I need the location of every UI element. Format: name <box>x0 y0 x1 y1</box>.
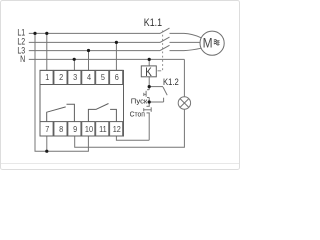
terminal row 7-12 <box>40 122 123 136</box>
wire terminal 9 to lamp bottom <box>75 109 185 147</box>
wire L3 contact to motor <box>170 48 202 50</box>
footer separator line <box>1 163 239 165</box>
contact K1.1 pole L3 <box>160 45 170 50</box>
svg-text:1: 1 <box>45 73 50 83</box>
svg-text:N: N <box>20 54 25 64</box>
wire coil K bottom to node A <box>148 77 150 87</box>
svg-text:10: 10 <box>85 124 94 134</box>
node bottom t7 <box>45 150 48 153</box>
wire L2 contact to motor <box>170 41 201 43</box>
terminal numbers 7-12 <box>45 124 121 134</box>
contact K1.2 latch <box>149 87 167 102</box>
wire terminal 12 to stop button <box>116 136 149 140</box>
wire terminal 7 drop <box>46 136 48 151</box>
relay U1 outline <box>40 70 124 136</box>
button S2 stop (Стоп) <box>144 102 152 140</box>
wire L3 to terminal 4 <box>88 51 90 71</box>
svg-text:M: M <box>203 35 213 51</box>
motor M1 <box>200 31 224 55</box>
wire L2 to terminal 6 <box>115 42 117 70</box>
wire L3 bus <box>29 50 160 52</box>
mechanical link dashed <box>162 31 164 71</box>
svg-text:11: 11 <box>99 124 107 134</box>
svg-text:9: 9 <box>73 124 78 134</box>
svg-text:5: 5 <box>101 73 106 83</box>
wire L1 to terminal 1 <box>46 33 48 70</box>
wire N bus <box>29 58 185 60</box>
lamp HL1 <box>178 97 190 109</box>
button S1 start (Пуск) <box>144 87 149 102</box>
svg-text:4: 4 <box>87 73 92 83</box>
svg-text:K1.1: K1.1 <box>144 17 162 29</box>
relay contact 10-12 <box>88 104 116 122</box>
node B bottom of latch <box>148 100 151 103</box>
node A top of buttons <box>148 85 151 88</box>
node N-coil <box>148 58 151 61</box>
coil K1 <box>141 66 156 77</box>
node L2-t6 <box>115 41 118 44</box>
terminal row 1-6 <box>40 70 123 84</box>
page frame <box>1 1 240 170</box>
wire L1 left drop to bottom rail up to terminal 10 <box>35 33 88 151</box>
wire L1 contact to motor <box>170 33 202 37</box>
node L3-t4 <box>87 49 90 52</box>
contact K1.1 pole L2 <box>160 37 170 42</box>
wire lamp top to N <box>183 59 185 96</box>
wire N to coil K <box>148 59 150 66</box>
svg-text:K1.2: K1.2 <box>163 77 179 88</box>
wire L1 bus <box>29 32 160 34</box>
svg-text:8: 8 <box>59 124 64 134</box>
node L1-t1 <box>45 32 48 35</box>
svg-text:6: 6 <box>115 73 120 83</box>
svg-text:3: 3 <box>73 73 78 83</box>
svg-text:12: 12 <box>113 124 122 134</box>
wire L2 bus <box>29 41 160 43</box>
svg-text:Пуск: Пуск <box>131 96 148 105</box>
svg-text:7: 7 <box>45 124 50 134</box>
svg-text:Стоп: Стоп <box>130 109 145 119</box>
svg-text:2: 2 <box>59 73 64 83</box>
svg-text:K: K <box>145 66 152 79</box>
node L1-drop <box>33 32 36 35</box>
node N-t3 <box>73 58 76 61</box>
wire N to terminal 3 <box>73 59 75 70</box>
relay contact 7-9 <box>47 104 75 121</box>
terminal numbers 1-6 <box>45 73 119 83</box>
contact K1.1 pole L1 <box>160 28 170 33</box>
